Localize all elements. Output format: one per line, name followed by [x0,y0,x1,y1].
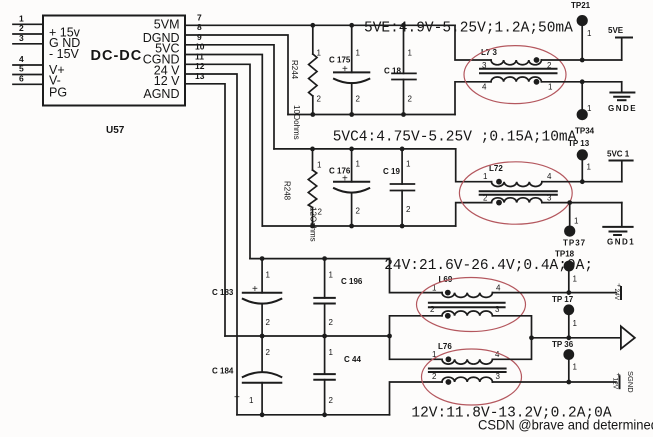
svg-text:4: 4 [496,284,501,293]
pin 5 stub [13,74,43,76]
svg-text:C 19: C 19 [383,167,400,176]
junction C184 bottom [260,412,265,417]
svg-text:8: 8 [197,22,202,32]
choke L69 [429,275,505,318]
svg-text:3: 3 [19,33,24,43]
svg-text:10Oohms: 10Oohms [292,105,301,140]
svg-text:2: 2 [266,318,271,327]
wire pin11 to 24V rail [185,64,250,258]
svg-text:5VM: 5VM [154,18,180,32]
wire row1 ground rail [288,114,455,116]
capacitor C19 [383,149,414,226]
svg-text:1: 1 [356,49,361,58]
svg-text:5VE:4.9V-5.25V;1.2A;50mA: 5VE:4.9V-5.25V;1.2A;50mA [364,21,573,37]
svg-text:+: + [342,64,348,75]
svg-text:3: 3 [547,194,552,203]
svg-text:1: 1 [573,363,578,372]
junction C183 top [260,256,265,261]
svg-text:2: 2 [329,318,334,327]
svg-text:2: 2 [430,305,435,314]
junction R244 top [310,23,315,28]
svg-text:5: 5 [19,64,24,74]
junction R244 bottom [310,112,315,117]
svg-text:1: 1 [266,271,271,280]
capacitor C184 [212,336,281,415]
svg-text:C 196: C 196 [341,277,363,286]
svg-text:2: 2 [408,95,413,104]
svg-text:C 183: C 183 [212,288,234,297]
junction AGND rail at choke vertical [387,334,392,339]
wire L69 pin 3 down to AGND output line [492,316,531,338]
junction C196 bottom [322,334,327,339]
wire L69 pin 2 / AGND / L76 pin 1 vertical [390,316,443,360]
svg-text:R244: R244 [290,60,299,80]
wire L72 pin 2 down to row2 ground rail [456,203,492,226]
svg-text:1: 1 [249,396,254,405]
junction C19 top [400,147,405,152]
svg-text:AGND: AGND [143,87,179,101]
svg-text:7: 7 [197,12,202,22]
junction R248 bottom [310,224,315,229]
svg-text:+: + [252,284,258,295]
svg-text:11: 11 [195,51,204,61]
svg-text:TP34: TP34 [575,127,595,136]
svg-text:3: 3 [496,372,501,381]
svg-text:- 15V: - 15V [49,47,80,61]
test point TP36 [552,340,578,382]
svg-text:1: 1 [573,319,578,328]
svg-text:10: 10 [195,42,205,52]
wire pin8 to row1 ground rail [185,35,288,115]
svg-text:1: 1 [483,172,488,181]
off-page arrow connector [621,326,635,349]
power port 5VC1 [607,150,633,182]
svg-text:TP 36: TP 36 [552,340,574,349]
svg-text:C 18: C 18 [384,67,401,76]
annotation ellipse around L73 [464,46,566,104]
junction choke AGND tie [529,335,534,340]
junction TP13 node [580,179,585,184]
power port +12V SGND [612,371,636,393]
wire row2 ground rail [262,225,455,227]
svg-text:1: 1 [548,83,553,92]
test point TP34 [575,82,595,136]
junction C19 bottom [400,224,405,229]
svg-text:4: 4 [547,172,552,181]
wire L72 pin 3 to GND1 [542,202,622,204]
annotation ellipse around L76 [422,349,522,405]
svg-text:1: 1 [574,217,579,226]
annotation ellipse around L69 [417,278,526,332]
choke L72 [480,164,557,205]
svg-text:1: 1 [408,49,413,58]
svg-text:2: 2 [266,348,271,357]
svg-text:2: 2 [547,61,552,70]
resistor R248 [283,149,323,226]
wire 12V rail [237,414,390,416]
svg-text:24V: 24V [613,289,620,301]
pin 2 stub [13,33,43,35]
choke L76 [429,342,506,385]
svg-text:9: 9 [197,32,202,42]
test point TP13 [568,139,592,182]
svg-text:SGND: SGND [626,371,635,393]
wire L73 pin 4 down to row1 ground rail [455,82,491,115]
junction C176 top [349,147,354,152]
svg-text:PG: PG [49,86,67,100]
wire pin13 to AGND rail [185,84,225,336]
svg-text:2: 2 [356,206,361,215]
svg-text:12 V: 12 V [154,74,180,88]
svg-text:GND1: GND1 [607,238,635,247]
wire pin10 to row2 ground rail [185,55,262,227]
resistor R244 [290,25,322,114]
svg-text:2: 2 [406,205,411,214]
wire pin12 to 12V rail [185,74,237,415]
capacitor C18 [384,25,416,114]
svg-text:2: 2 [356,95,361,104]
wire L69 pin 4 to +24V port [492,292,616,294]
svg-text:2: 2 [19,23,24,33]
svg-text:1: 1 [406,160,411,169]
svg-text:1: 1 [19,13,24,23]
pin 1 stub [13,23,43,25]
svg-text:1: 1 [317,161,322,170]
svg-text:CSDN @brave and determined: CSDN @brave and determined [478,417,653,433]
junction C44 bottom [322,412,327,417]
svg-text:1: 1 [587,29,592,38]
svg-text:C 44: C 44 [344,355,361,364]
svg-text:R248: R248 [283,181,292,201]
svg-text:2: 2 [483,194,488,203]
capacitor C44 [314,336,361,415]
svg-text:1: 1 [317,49,322,58]
pin 3 stub [13,43,43,45]
svg-text:TP18: TP18 [555,250,575,259]
junction C183 bottom [260,334,265,339]
junction TP37 node [567,200,572,205]
junction TP21 node [580,58,585,63]
svg-text:+: + [234,393,240,404]
svg-text:5VC 1: 5VC 1 [607,150,630,159]
wire L73 pin 2 to 5VE port [541,59,621,61]
svg-text:5VC4:4.75V-5.25V ;0.15A;10mA: 5VC4:4.75V-5.25V ;0.15A;10mA [333,129,577,145]
junction C175 top [349,23,354,28]
junction C18 top [401,23,406,28]
junction C196 top [322,256,327,261]
wire 5VC top rail (pin 9) [274,148,456,150]
svg-text:+: + [342,173,348,184]
junction R248 top [310,147,315,152]
svg-text:3: 3 [482,61,487,70]
svg-text:12: 12 [195,61,205,71]
test point TP37 [563,203,586,248]
junction C18 bottom [401,112,406,117]
junction C176 bottom [349,224,354,229]
svg-text:1: 1 [587,104,592,113]
svg-text:GNDE: GNDE [608,104,637,113]
svg-text:24V:21.6V-26.4V;0.4A;0A;: 24V:21.6V-26.4V;0.4A;0A; [384,258,593,274]
svg-text:2: 2 [329,396,334,405]
capacitor C183 [212,259,281,336]
test point TP21 [571,1,592,60]
svg-text:U57: U57 [106,125,125,136]
junction TP34 node [580,79,585,84]
pin 6 stub [13,83,43,85]
power port 5VE [608,26,632,60]
svg-text:C 184: C 184 [212,367,234,376]
svg-text:6: 6 [19,73,24,83]
test point TP18 [555,250,578,293]
wire L76 pin 3 to SGND port [492,381,616,383]
wire 24V rail [250,258,390,260]
ground GND1 [603,203,635,247]
svg-text:4: 4 [482,83,487,92]
svg-text:TP21: TP21 [571,1,591,10]
wire 24V rail down to L69 pin 1 [390,259,443,293]
junction C175 bottom [349,112,354,117]
svg-text:2: 2 [432,372,437,381]
wire jog row2 top rail down to L72 pin 1 [456,149,492,182]
wire L73 pin 1 to GNDE [541,81,621,83]
svg-text:5VE: 5VE [608,26,624,35]
svg-text:2: 2 [317,95,322,104]
power port +24V [613,283,621,301]
pin 4 stub [13,64,43,66]
wire L72 pin 4 to 5VC1 port [542,181,622,183]
op-amp U57 DC-DC converter block [43,16,185,106]
svg-text:3: 3 [495,305,500,314]
wire pin9 to row2 supply rail [185,45,274,149]
svg-text:4: 4 [495,350,500,359]
svg-text:12V: 12V [612,378,619,390]
svg-text:TP 17: TP 17 [552,295,574,304]
svg-text:TP 13: TP 13 [568,139,590,148]
junction TP17 node [566,335,571,340]
svg-text:4: 4 [19,54,24,64]
svg-text:TP37: TP37 [563,239,586,248]
svg-text:DC-DC: DC-DC [91,48,143,64]
wire L76 pin 4 up to AGND output line [492,338,531,360]
choke L73 [480,48,557,92]
wire AGND rail [225,335,390,337]
svg-text:1: 1 [573,275,578,284]
svg-text:1: 1 [356,160,361,169]
ground GNDE [608,82,637,113]
capacitor C196 [314,259,363,336]
annotation ellipse around L72 [459,162,572,224]
svg-text:1: 1 [329,271,334,280]
capacitor C175 [329,25,369,114]
svg-text:L72: L72 [489,164,503,173]
svg-text:1: 1 [587,163,592,172]
svg-text:L76: L76 [438,342,452,351]
junction TP36 node [566,380,571,385]
svg-text:1: 1 [329,348,334,357]
wire AGND output line to arrow [532,337,621,339]
wire jog top rail down to L73 pin 3 [455,25,491,60]
wire 5VM top rail (pin 7) [185,24,455,26]
svg-text:13: 13 [195,71,205,81]
capacitor C176 [329,149,369,226]
junction TP18 node [566,290,571,295]
wire 12V rail up to L76 pin 2 [390,382,443,415]
test point TP17 [552,295,578,338]
